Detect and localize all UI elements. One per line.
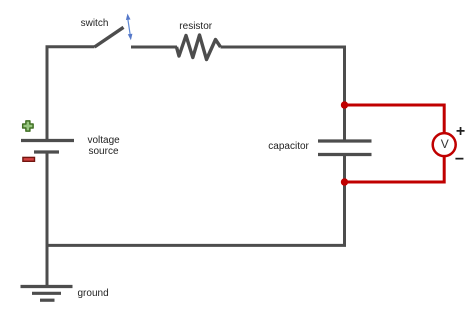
node junction dot bottom [341,178,348,185]
resistor zigzag [177,35,221,60]
capacitor C bottom plate [318,153,372,156]
voltmeter minus label [455,152,464,168]
voltage source battery bottom plate (-) [34,150,59,153]
label resistor [179,22,212,32]
label voltage (line 1) [88,136,120,146]
wire battery to ground [46,154,49,286]
label switch [81,19,109,29]
ground bar 3 [40,299,55,302]
label ground [78,289,109,299]
wire capacitor down, bottom wire to left [47,156,345,245]
red wire top: node to voltmeter [345,105,445,134]
battery plus symbol (green) [23,121,33,131]
wire left vertical and top-left segment [47,47,95,140]
label capacitor [268,142,309,152]
ground bar 1 [21,285,73,288]
switch S1 blade [95,27,124,47]
red wire bottom: voltmeter to node [345,156,445,182]
wire resistor to top-right corner and down to capacitor [221,47,345,140]
battery minus symbol (red) [23,157,35,161]
node junction dot top [341,101,348,108]
capacitor C top plate [318,139,372,142]
voltmeter U1 circle [433,133,456,156]
label source (line 2) [89,147,119,157]
switch actuation arrow (blue double-headed) [126,14,132,41]
wire switch to resistor [131,46,177,49]
voltmeter plus label [456,124,465,140]
ground bar 2 [32,292,61,295]
voltage source battery top plate (+) [21,139,74,142]
voltmeter letter V [441,138,449,150]
